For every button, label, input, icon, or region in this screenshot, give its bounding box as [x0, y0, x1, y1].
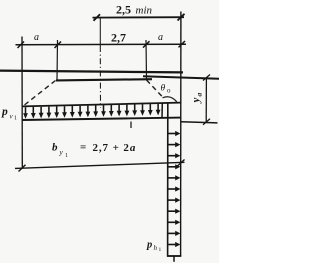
- svg-text:y: y: [59, 148, 64, 157]
- pressure band bottom tail: [173, 256, 175, 262]
- stub below load strip: [130, 122, 132, 129]
- extension line left (x=22): [21, 37, 23, 169]
- svg-text:1: 1: [14, 116, 17, 122]
- distributed load p_h1 arrows: [168, 131, 180, 247]
- svg-text:p: p: [146, 240, 152, 251]
- dimension line a | 2,7 | a: [16, 41, 187, 48]
- pressure band left edge: [167, 104, 169, 257]
- svg-text:p: p: [1, 106, 8, 118]
- svg-text:a: a: [158, 32, 163, 43]
- y_a bottom extension line: [181, 122, 218, 123]
- svg-text:a: a: [194, 93, 203, 97]
- dimension line b_y1: [15, 160, 185, 172]
- pressure band bottom closure: [167, 255, 181, 257]
- svg-text:h: h: [154, 244, 158, 252]
- svg-text:1: 1: [159, 247, 162, 253]
- extension line at sleeper end right (x=146): [145, 40, 148, 80]
- sleeper top line: [56, 79, 152, 80]
- track centerline (dash-dot): [99, 18, 101, 108]
- extension line right / pressure band right edge (x=180.8): [180, 12, 182, 257]
- distributed load p_v1 right closure: [161, 103, 163, 119]
- dashed spread line left: [23, 81, 56, 107]
- svg-text:min: min: [136, 5, 153, 17]
- svg-text:2,7 + 2a: 2,7 + 2a: [93, 142, 137, 154]
- ground line: [0, 71, 183, 73]
- extension line at sleeper end left (x=57.5): [56, 40, 59, 80]
- distributed load p_v1 arrows: [23, 104, 160, 119]
- label p_v1: [1, 106, 17, 122]
- label theta0: [161, 84, 172, 95]
- svg-text:b: b: [52, 142, 58, 154]
- svg-text:y: y: [190, 98, 202, 105]
- dashed spread line right: [147, 80, 165, 99]
- svg-text:2,7: 2,7: [111, 31, 126, 45]
- svg-text:2,5: 2,5: [116, 3, 131, 17]
- y_a dimension line: [203, 75, 210, 125]
- label b_y1 = 2,7 + 2a: [52, 142, 136, 160]
- svg-text:θ: θ: [161, 84, 166, 94]
- distributed load p_v1 top line: [22, 103, 181, 107]
- distributed load p_v1 bottom line: [22, 118, 181, 120]
- y_a top extension line: [143, 76, 219, 79]
- angle theta0 arc: [163, 97, 177, 102]
- label 2,5 min: [116, 3, 153, 17]
- svg-text:1: 1: [65, 153, 68, 159]
- svg-text:=: =: [80, 142, 86, 154]
- dimension line 2,5 min: [93, 14, 185, 21]
- label y_a (rotated): [190, 93, 204, 105]
- svg-text:a: a: [34, 32, 39, 43]
- label p_h1: [146, 240, 162, 254]
- svg-text:o: o: [167, 87, 171, 95]
